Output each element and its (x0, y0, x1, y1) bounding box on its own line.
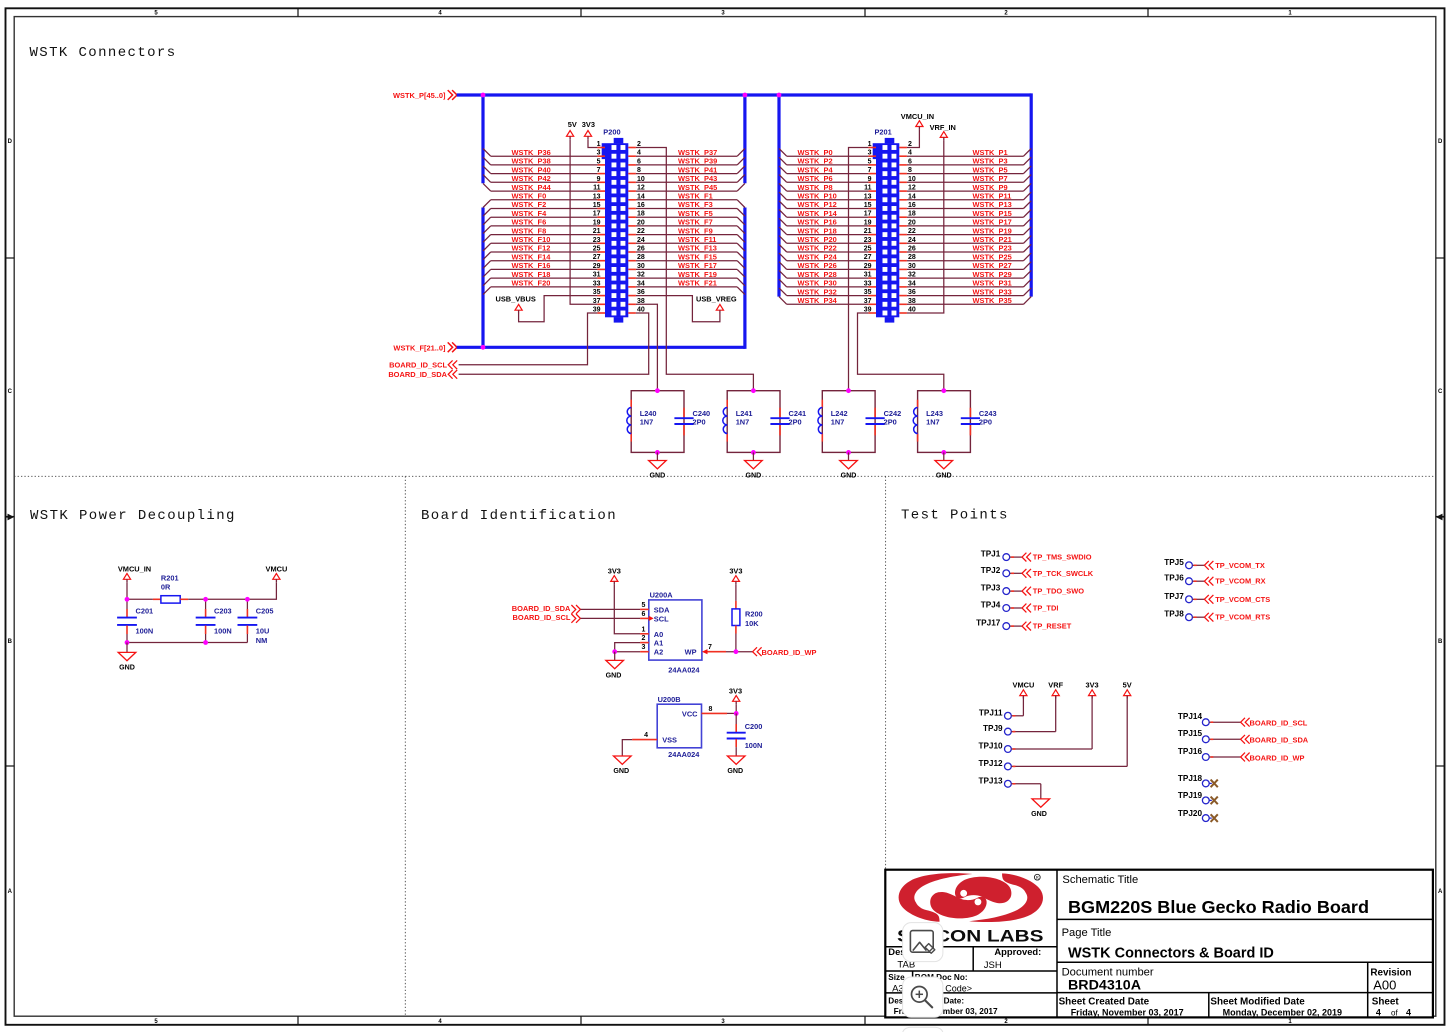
svg-text:WSTK_P[45..0]: WSTK_P[45..0] (393, 91, 446, 100)
overlay button (zoom icon) (903, 977, 943, 1017)
svg-text:WSTK_P30: WSTK_P30 (798, 279, 837, 288)
test point TPJ12 to 5V (978, 680, 1131, 770)
capacitor C243 (961, 408, 997, 436)
wire WSTK_P40, P200 pin 7 (483, 165, 605, 174)
svg-text:WSTK_P0: WSTK_P0 (798, 148, 833, 157)
svg-text:R200: R200 (745, 609, 763, 618)
test point TPJ17 (TP_RESET) (976, 619, 1072, 631)
svg-text:VMCU_IN: VMCU_IN (118, 565, 151, 574)
junction dot A2 (612, 649, 617, 654)
svg-text:5V: 5V (568, 120, 577, 129)
svg-text:BOARD_ID_SCL: BOARD_ID_SCL (1250, 719, 1308, 728)
svg-text:BOARD_ID_SDA: BOARD_ID_SDA (512, 604, 571, 613)
junction dot L243 bottom (941, 450, 946, 455)
wire WSTK_F12, P200 pin 25 (483, 244, 605, 260)
capacitor C203 (196, 599, 232, 642)
junction dot L240 bottom (655, 450, 660, 455)
wire WSTK_P1, P201 pin 4 (899, 148, 1031, 157)
wire WSTK_P33, P201 pin 36 (899, 287, 1031, 296)
svg-text:24AA024: 24AA024 (668, 666, 700, 675)
svg-text:U200B: U200B (658, 695, 681, 704)
test point TPJ2 (TP_TCK_SWCLK) (981, 566, 1094, 578)
svg-text:TPJ16: TPJ16 (1178, 747, 1203, 756)
svg-text:WSTK_P17: WSTK_P17 (973, 218, 1012, 227)
wire WSTK_P45, P200 pin 12 (628, 183, 745, 192)
wire WSTK_F21, P200 pin 34 (628, 279, 745, 295)
svg-text:WSTK_F11: WSTK_F11 (678, 235, 716, 244)
wire WSTK_F13, P200 pin 26 (628, 244, 745, 260)
svg-text:GND: GND (841, 471, 857, 479)
svg-text:BOARD_ID_WP: BOARD_ID_WP (762, 648, 817, 657)
svg-text:TPJ9: TPJ9 (983, 724, 1003, 733)
junction dot L241 top (751, 388, 756, 393)
test point TPJ8 (TP_VCOM_RTS) (1164, 610, 1270, 622)
power 3V3 to P200 pin 1 (582, 120, 605, 148)
svg-text:TPJ10: TPJ10 (978, 742, 1003, 751)
test point TPJ4 (TP_TDI) (981, 601, 1059, 613)
svg-text:3V3: 3V3 (608, 567, 621, 576)
wire WSTK_F10, P200 pin 23 (483, 235, 605, 251)
svg-text:WSTK_F14: WSTK_F14 (512, 252, 552, 261)
svg-text:10U: 10U (256, 627, 270, 636)
wire WSTK_P41, P200 pin 8 (628, 165, 745, 174)
wire WSTK_F0, P200 pin 13 (483, 192, 605, 208)
wire WSTK_P15, P201 pin 18 (899, 209, 1031, 218)
svg-text:WSTK_P34: WSTK_P34 (798, 296, 838, 305)
svg-text:2P0: 2P0 (979, 418, 992, 427)
svg-text:Schematic Title: Schematic Title (1062, 874, 1138, 886)
svg-text:D: D (8, 139, 13, 145)
svg-text:BOARD_ID_SDA: BOARD_ID_SDA (1250, 736, 1309, 745)
wire WSTK_P14, P201 pin 17 (779, 209, 876, 218)
test point TPJ15 (BOARD_ID_SDA) (1178, 729, 1309, 745)
wire WSTK_F3, P200 pin 16 (628, 200, 745, 216)
svg-text:3V3: 3V3 (729, 567, 742, 576)
junction dot bus left P200 (481, 93, 486, 98)
svg-text:TPJ5: TPJ5 (1164, 558, 1184, 567)
svg-text:TPJ1: TPJ1 (981, 550, 1001, 559)
svg-text:TP_VCOM_RTS: TP_VCOM_RTS (1215, 613, 1270, 622)
svg-text:WSTK_P38: WSTK_P38 (512, 157, 551, 166)
svg-text:WSTK_P20: WSTK_P20 (798, 235, 837, 244)
svg-text:WSTK_P19: WSTK_P19 (973, 226, 1012, 235)
svg-text:A2: A2 (654, 648, 663, 657)
svg-text:WSTK Connectors: WSTK Connectors (30, 45, 177, 61)
wire WSTK_P36, P200 pin 3 (483, 148, 605, 157)
svg-text:TPJ13: TPJ13 (978, 776, 1003, 785)
wire WSTK_P4, P201 pin 7 (779, 165, 876, 174)
svg-text:WSTK_F9: WSTK_F9 (678, 226, 713, 235)
svg-text:WSTK_P42: WSTK_P42 (512, 174, 551, 183)
bus riser right of P200 (WSTK_F) (743, 208, 746, 349)
wire WSTK_F5, P200 pin 18 (628, 209, 745, 225)
test point TPJ16 (BOARD_ID_WP) (1178, 747, 1305, 763)
svg-text:WP: WP (685, 648, 697, 657)
wire SDA to U200A pin 5 (581, 602, 649, 610)
svg-text:WSTK_F18: WSTK_F18 (512, 270, 551, 279)
junction dots decoupling (125, 597, 250, 645)
svg-text:WSTK_P33: WSTK_P33 (973, 287, 1012, 296)
wire BOARD_ID_SCL from P200 pin 39 (459, 307, 605, 365)
svg-text:A: A (8, 889, 13, 895)
svg-text:WSTK_F[21..0]: WSTK_F[21..0] (393, 344, 446, 353)
svg-text:WSTK_F8: WSTK_F8 (512, 226, 547, 235)
wire WSTK_F6, P200 pin 19 (483, 218, 605, 234)
svg-text:WSTK_P37: WSTK_P37 (678, 148, 717, 157)
filter L242/C242 network (822, 391, 875, 453)
svg-text:WSTK_P24: WSTK_P24 (798, 252, 838, 261)
svg-text:WSTK_P5: WSTK_P5 (973, 165, 1008, 174)
svg-text:TP_TCK_SWCLK: TP_TCK_SWCLK (1033, 569, 1094, 578)
wire WSTK_P31, P201 pin 34 (899, 279, 1031, 288)
inductor L242 (818, 400, 848, 442)
svg-text:Test Points: Test Points (901, 508, 1009, 524)
wire to L241 from P200 pin 2 (628, 141, 753, 391)
svg-text:WSTK_P2: WSTK_P2 (798, 157, 833, 166)
svg-text:1: 1 (642, 626, 646, 633)
wire WSTK_F2, P200 pin 15 (483, 200, 605, 216)
resistor R200 (729, 567, 762, 652)
wire WSTK_P5, P201 pin 8 (899, 165, 1031, 174)
svg-text:B: B (8, 639, 13, 645)
svg-text:USB_VREG: USB_VREG (696, 294, 737, 303)
svg-text:B: B (1438, 639, 1443, 645)
wire WSTK_F20, P200 pin 33 (483, 279, 605, 295)
svg-text:GND: GND (119, 663, 135, 671)
wire WSTK_P11, P201 pin 14 (899, 192, 1031, 201)
svg-text:A3: A3 (892, 984, 904, 995)
svg-text:WSTK_P43: WSTK_P43 (678, 174, 717, 183)
wire WSTK_P44, P200 pin 11 (483, 183, 605, 192)
svg-text:Page Title: Page Title (1062, 927, 1112, 939)
svg-text:WSTK_F12: WSTK_F12 (512, 244, 551, 253)
svg-text:WSTK_F1: WSTK_F1 (678, 192, 713, 201)
net label BOARD_ID_SCL (U200A) (513, 613, 581, 623)
svg-text:5: 5 (642, 602, 646, 609)
filter L243/C243 network (918, 391, 971, 453)
power VMCU_IN (decoupling) (118, 565, 151, 600)
test point TPJ5 (TP_VCOM_TX) (1164, 558, 1265, 570)
inductor L243 (913, 400, 943, 442)
test point TPJ6 (TP_VCOM_RX) (1164, 574, 1265, 586)
svg-text:100N: 100N (214, 627, 232, 636)
wire to L240 from P200 pin 38 (628, 298, 657, 391)
svg-text:C: C (8, 389, 13, 395)
svg-text:WSTK_P36: WSTK_P36 (512, 148, 551, 157)
wire WSTK_F16, P200 pin 29 (483, 261, 605, 277)
bus riser right of P200 (WSTK_P) (743, 93, 746, 183)
wire WSTK_P8, P201 pin 11 (779, 183, 876, 192)
junction dot WSTK_F bus (481, 345, 486, 350)
svg-text:USB_VBUS: USB_VBUS (496, 294, 536, 303)
title block (885, 870, 1433, 1018)
svg-text:WSTK Connectors & Board ID: WSTK Connectors & Board ID (1068, 946, 1274, 962)
wire WSTK_F4, P200 pin 17 (483, 209, 605, 225)
svg-text:WSTK_P29: WSTK_P29 (973, 270, 1012, 279)
svg-text:Date:: Date: (944, 996, 964, 1005)
junction dot L242 top (846, 388, 851, 393)
svg-text:A1: A1 (654, 639, 663, 648)
svg-text:3: 3 (642, 644, 646, 651)
svg-text:WSTK_F17: WSTK_F17 (678, 261, 717, 270)
resistor R201 (127, 573, 247, 603)
svg-text:VSS: VSS (662, 736, 677, 745)
svg-text:WSTK_P28: WSTK_P28 (798, 270, 837, 279)
power VMCU (decoupling) (247, 565, 287, 600)
wire WSTK_P23, P201 pin 26 (899, 244, 1031, 253)
wire WSTK_F15, P200 pin 28 (628, 252, 745, 268)
svg-text:P201: P201 (875, 127, 892, 136)
test point TPJ1 (TP_TMS_SWDIO) (981, 550, 1092, 562)
capacitor C240 (674, 408, 710, 436)
svg-text:WSTK_P4: WSTK_P4 (798, 165, 834, 174)
svg-text:WSTK_P39: WSTK_P39 (678, 157, 717, 166)
wire WSTK_P30, P201 pin 33 (779, 279, 876, 288)
svg-text:of: of (1391, 1008, 1398, 1017)
svg-text:WSTK_F3: WSTK_F3 (678, 200, 713, 209)
ground C200 (727, 756, 745, 775)
svg-text:WSTK_P26: WSTK_P26 (798, 261, 837, 270)
svg-text:2: 2 (642, 635, 646, 642)
svg-text:4: 4 (1376, 1007, 1381, 1017)
svg-text:U200A: U200A (650, 590, 674, 599)
bus riser left of P200 (WSTK_P) (481, 93, 484, 183)
Silicon Labs logo (897, 873, 1044, 945)
wire WSTK_P3, P201 pin 6 (899, 157, 1031, 166)
svg-text:WSTK_F5: WSTK_F5 (678, 209, 713, 218)
power 3V3 to U200A A0 (608, 567, 649, 634)
bus riser right of P201 (1030, 93, 1033, 296)
inductor L241 (723, 400, 753, 442)
wire BOARD_ID_SDA from P200 pin 40 (459, 307, 649, 375)
svg-text:WSTK_P10: WSTK_P10 (798, 192, 837, 201)
test point TPJ11 to VMCU (979, 680, 1034, 719)
title block texts (888, 874, 1411, 1017)
svg-text:SCL: SCL (654, 614, 669, 623)
wire WSTK_F7, P200 pin 20 (628, 218, 745, 234)
junction dot L240 top (655, 388, 660, 393)
test point TPJ13 to ground (978, 776, 1049, 818)
svg-text:24AA024: 24AA024 (668, 750, 700, 759)
svg-text:VRF: VRF (1048, 680, 1063, 689)
svg-text:TPJ17: TPJ17 (976, 619, 1001, 628)
test point TPJ20 (no connect) (1178, 809, 1218, 822)
svg-text:5V: 5V (1123, 680, 1132, 689)
svg-text:TPJ2: TPJ2 (981, 566, 1001, 575)
section divider dotted lines (14, 476, 1436, 1016)
svg-text:WSTK_P21: WSTK_P21 (973, 235, 1012, 244)
wire WSTK_P37, P200 pin 4 (628, 148, 745, 157)
svg-text:NM: NM (256, 636, 267, 645)
wire WSTK_F8, P200 pin 21 (483, 226, 605, 242)
svg-text:WSTK_P11: WSTK_P11 (973, 192, 1012, 201)
svg-text:WSTK_P31: WSTK_P31 (973, 279, 1012, 288)
capacitor C200 (727, 713, 763, 756)
test point TPJ18 (no connect) (1178, 774, 1218, 787)
svg-text:GND: GND (746, 471, 762, 479)
wire WSTK_F19, P200 pin 32 (628, 270, 745, 286)
svg-text:R: R (1036, 875, 1039, 880)
net label BOARD_ID_SDA (U200A) (512, 604, 581, 614)
svg-text:2P0: 2P0 (789, 418, 802, 427)
svg-text:VMCU_IN: VMCU_IN (901, 112, 934, 121)
svg-text:TPJ20: TPJ20 (1178, 809, 1203, 818)
svg-text:TPJ18: TPJ18 (1178, 774, 1203, 783)
wire WSTK_P38, P200 pin 5 (483, 157, 605, 166)
net label BOARD_ID_SDA (388, 370, 457, 379)
net label BOARD_ID_WP (753, 647, 817, 657)
svg-text:WSTK_P8: WSTK_P8 (798, 183, 833, 192)
wire WSTK_F11, P200 pin 24 (628, 235, 745, 251)
svg-text:GND: GND (613, 767, 629, 775)
wire WSTK_F1, P200 pin 14 (628, 192, 745, 208)
svg-text:TP_RESET: TP_RESET (1033, 622, 1072, 631)
svg-text:3V3: 3V3 (729, 687, 742, 696)
wire WSTK_P0, P201 pin 3 (779, 148, 876, 157)
svg-text:TP_VCOM_RX: TP_VCOM_RX (1215, 577, 1265, 586)
svg-text:TP_TMS_SWDIO: TP_TMS_SWDIO (1033, 553, 1092, 562)
svg-text:A0: A0 (654, 630, 663, 639)
svg-text:R201: R201 (161, 573, 179, 582)
power VMCU_IN to P201 pin 2 (899, 112, 934, 148)
filter L241/C241 network (727, 391, 780, 453)
net USB_VREG to P200 pin 36 (628, 289, 737, 322)
svg-text:D: D (1438, 139, 1443, 145)
net USB_VBUS to P200 pin 35 (496, 289, 606, 322)
wire WSTK_P27, P201 pin 30 (899, 261, 1031, 270)
svg-text:WSTK_P6: WSTK_P6 (798, 174, 833, 183)
svg-text:6: 6 (642, 611, 646, 618)
wire WSTK_P6, P201 pin 9 (779, 174, 876, 183)
wire U200B VSS pin 4 to ground (622, 732, 657, 756)
svg-text:Sheet Created Date: Sheet Created Date (1059, 996, 1150, 1007)
svg-text:BOARD_ID_SCL: BOARD_ID_SCL (389, 360, 447, 369)
wire decoupling bottom (127, 642, 247, 644)
svg-text:VRF_IN: VRF_IN (930, 123, 956, 132)
net label BOARD_ID_SCL (389, 360, 457, 369)
svg-text:WSTK_F20: WSTK_F20 (512, 279, 551, 288)
svg-text:BOARD_ID_SCL: BOARD_ID_SCL (513, 613, 571, 622)
svg-text:WSTK_P25: WSTK_P25 (973, 252, 1012, 261)
ground below L243 (935, 452, 953, 479)
test point TPJ14 (BOARD_ID_SCL) (1178, 712, 1308, 728)
svg-text:WSTK_P12: WSTK_P12 (798, 200, 837, 209)
svg-text:2P0: 2P0 (884, 418, 897, 427)
svg-text:WSTK_P35: WSTK_P35 (973, 296, 1012, 305)
IC U200B (24AA024) (657, 695, 701, 759)
connector P201 (873, 127, 900, 322)
svg-text:1N7: 1N7 (926, 418, 940, 427)
svg-text:GND: GND (727, 767, 743, 775)
svg-text:VCC: VCC (682, 709, 698, 718)
svg-text:BOARD_ID_WP: BOARD_ID_WP (1250, 753, 1305, 762)
svg-text:BRD4310A: BRD4310A (1068, 977, 1141, 992)
wire WSTK_P20, P201 pin 23 (779, 235, 876, 244)
bus riser left of P201 (777, 93, 780, 296)
svg-text:VMCU: VMCU (1013, 680, 1035, 689)
wire WSTK_F14, P200 pin 27 (483, 252, 605, 268)
capacitor C241 (770, 408, 806, 436)
svg-text:C203: C203 (214, 607, 232, 616)
svg-text:TPJ15: TPJ15 (1178, 729, 1203, 738)
ground U200B VSS (613, 756, 631, 775)
wire WSTK_P17, P201 pin 20 (899, 218, 1031, 227)
wire U200A A2 to ground (615, 644, 649, 652)
svg-text:100N: 100N (745, 741, 763, 750)
ground U200A (606, 652, 624, 680)
test point TPJ10 to 3V3 (978, 680, 1098, 752)
svg-text:WSTK_P40: WSTK_P40 (512, 165, 551, 174)
wire WSTK_P35, P201 pin 38 (899, 296, 1031, 305)
svg-text:WSTK_P7: WSTK_P7 (973, 174, 1008, 183)
wire WSTK_P43, P200 pin 10 (628, 174, 745, 183)
svg-text:WSTK_P45: WSTK_P45 (678, 183, 717, 192)
svg-text:JSH: JSH (984, 960, 1002, 971)
svg-text:Approved:: Approved: (994, 946, 1041, 957)
wire WSTK_P28, P201 pin 31 (779, 270, 876, 279)
svg-text:TP_TDI: TP_TDI (1033, 604, 1059, 613)
svg-text:WSTK_F15: WSTK_F15 (678, 252, 717, 261)
svg-text:TPJ4: TPJ4 (981, 601, 1001, 610)
svg-text:WSTK_F21: WSTK_F21 (678, 279, 717, 288)
wire WSTK_P18, P201 pin 21 (779, 226, 876, 235)
svg-text:2P0: 2P0 (693, 418, 706, 427)
svg-text:3V3: 3V3 (1086, 680, 1099, 689)
wire WSTK_P42, P200 pin 9 (483, 174, 605, 183)
svg-text:4: 4 (644, 732, 648, 739)
svg-text:WSTK_F4: WSTK_F4 (512, 209, 548, 218)
wire SCL to U200A pin 6 (581, 611, 649, 619)
svg-text:C205: C205 (256, 607, 274, 616)
power VRF_IN to P201 pin 40 (899, 123, 956, 314)
test point TPJ7 (TP_VCOM_CTS) (1164, 592, 1270, 604)
svg-text:A00: A00 (1373, 977, 1396, 992)
svg-text:1N7: 1N7 (736, 418, 750, 427)
wire WSTK_P22, P201 pin 25 (779, 244, 876, 253)
connector P200 (602, 127, 629, 322)
svg-text:C201: C201 (136, 607, 154, 616)
svg-text:Sheet Modified Date: Sheet Modified Date (1210, 996, 1305, 1007)
svg-text:WSTK_F16: WSTK_F16 (512, 261, 551, 270)
wire WSTK_P10, P201 pin 13 (779, 192, 876, 201)
svg-text:7: 7 (708, 644, 712, 651)
svg-text:C: C (1438, 389, 1443, 395)
svg-text:WSTK_P23: WSTK_P23 (973, 244, 1012, 253)
svg-text:Board Identification: Board Identification (421, 508, 617, 524)
wire WSTK_P16, P201 pin 19 (779, 218, 876, 227)
wire WSTK_P24, P201 pin 27 (779, 252, 876, 261)
svg-text:Monday, December 02, 2019: Monday, December 02, 2019 (1223, 1007, 1342, 1017)
svg-text:Friday, November 03, 2017: Friday, November 03, 2017 (1071, 1007, 1184, 1017)
svg-text:VMCU: VMCU (266, 565, 288, 574)
power 3V3 to U200B VCC pin 8 (702, 687, 743, 714)
wire WSTK_P9, P201 pin 12 (899, 183, 1031, 192)
junction dot WP/R200 (734, 649, 739, 654)
ground decoupling (118, 643, 136, 672)
junction dot bus right P200 (743, 93, 748, 98)
junction dot bus left P201 (777, 93, 782, 98)
svg-text:WSTK_P1: WSTK_P1 (973, 148, 1008, 157)
svg-text:WSTK_F13: WSTK_F13 (678, 244, 717, 253)
svg-text:8: 8 (709, 706, 713, 713)
svg-text:TPJ6: TPJ6 (1164, 574, 1184, 583)
svg-text:Sheet: Sheet (1372, 996, 1400, 1007)
svg-text:10K: 10K (745, 619, 759, 628)
junction dot VCC (734, 711, 739, 716)
svg-text:WSTK_P16: WSTK_P16 (798, 218, 837, 227)
bus WSTK_F[21..0] (393, 342, 744, 352)
wire WSTK_P7, P201 pin 10 (899, 174, 1031, 183)
